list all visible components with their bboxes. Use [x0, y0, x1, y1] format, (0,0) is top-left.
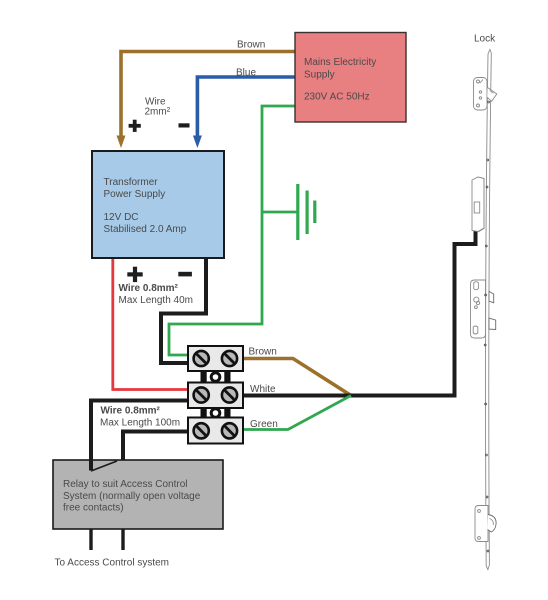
svg-text:Max Length 100m: Max Length 100m — [100, 418, 180, 429]
svg-text:Blue: Blue — [236, 68, 256, 79]
svg-text:Transformer: Transformer — [104, 177, 159, 188]
svg-text:Wire 0.8mm²: Wire 0.8mm² — [101, 406, 161, 417]
svg-text:Max Length 40m: Max Length 40m — [119, 295, 194, 306]
svg-text:Mains Electricity: Mains Electricity — [304, 57, 376, 68]
svg-text:230V AC 50Hz: 230V AC 50Hz — [304, 92, 370, 103]
svg-text:Brown: Brown — [237, 40, 265, 51]
svg-text:White: White — [250, 384, 276, 395]
svg-text:Stabilised 2.0 Amp: Stabilised 2.0 Amp — [104, 224, 187, 235]
svg-text:Relay to suit Access Control: Relay to suit Access Control — [63, 479, 188, 490]
svg-text:Wire 0.8mm²: Wire 0.8mm² — [119, 283, 179, 294]
svg-text:free contacts): free contacts) — [63, 503, 124, 514]
svg-text:Power Supply: Power Supply — [104, 189, 166, 200]
svg-text:Green: Green — [250, 419, 278, 430]
svg-text:Lock: Lock — [474, 34, 496, 45]
svg-text:Supply: Supply — [304, 69, 335, 80]
svg-text:12V DC: 12V DC — [104, 212, 139, 223]
svg-text:2mm²: 2mm² — [145, 107, 171, 118]
svg-text:Brown: Brown — [249, 347, 277, 358]
svg-text:To Access Control system: To Access Control system — [55, 558, 169, 569]
svg-text:System (normally open voltage: System (normally open voltage — [63, 491, 201, 502]
